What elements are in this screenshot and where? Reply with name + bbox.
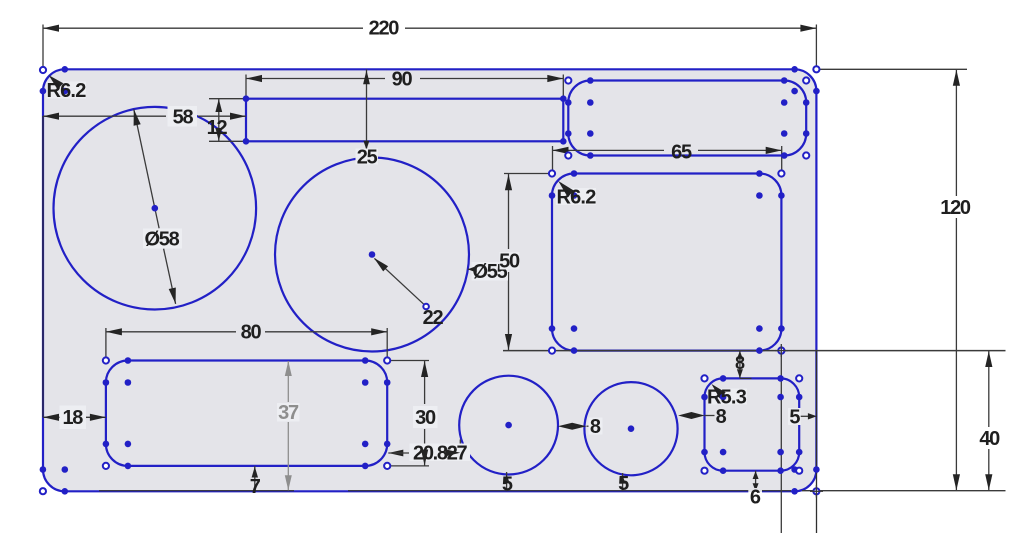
dimension 30 bottom arrow xyxy=(421,450,428,466)
svg-text:8: 8 xyxy=(735,353,745,373)
point for 22 leader xyxy=(423,304,429,310)
label R5.3 leader xyxy=(714,386,723,393)
extension overlay left edge xyxy=(42,116,44,417)
dimension 12 lines xyxy=(218,99,220,142)
dimension 50 text xyxy=(500,252,520,270)
middle cutout corner points xyxy=(571,170,578,177)
bottom-left cutout corner points xyxy=(125,357,132,364)
svg-text:7: 7 xyxy=(250,476,261,498)
panel outline 220x120 R6.2 corners (grey profile fill) xyxy=(43,69,816,491)
label R6.2 middle text xyxy=(556,188,596,205)
dimension 37 driven grey lines xyxy=(287,361,289,402)
label R6.2 panel leader xyxy=(51,77,63,86)
dimension 80 lines xyxy=(106,331,236,333)
svg-text:12: 12 xyxy=(207,117,228,139)
svg-text:58: 58 xyxy=(173,107,194,129)
bottom-left rounded cutout 80x30 xyxy=(106,361,387,466)
circle center points xyxy=(152,205,159,212)
svg-text:6: 6 xyxy=(750,487,761,509)
panel corner open points xyxy=(40,67,46,73)
dimension 25 lines xyxy=(366,69,368,150)
top-right cutout corner points xyxy=(587,77,594,84)
bottom circle A xyxy=(459,376,558,475)
dimension 5 circle A lines xyxy=(506,472,508,491)
svg-text:65: 65 xyxy=(671,142,692,164)
svg-text:R5.3: R5.3 xyxy=(707,386,747,408)
dimension 8 above square text xyxy=(737,369,743,378)
label R5.3 text xyxy=(709,389,748,405)
extension overlay bottom edge a xyxy=(99,490,294,492)
bottom-right rounded square cutout R5.3 xyxy=(705,378,800,470)
svg-text:8: 8 xyxy=(716,406,727,428)
dimension 58 lines xyxy=(43,115,166,117)
dimension 8 between circles lines xyxy=(558,423,587,430)
dimension 6 text xyxy=(748,488,762,491)
svg-text:25: 25 xyxy=(357,147,378,169)
dimension 22 leader lines xyxy=(375,259,427,307)
svg-text:80: 80 xyxy=(241,322,262,344)
svg-text:Ø58: Ø58 xyxy=(145,229,180,251)
dimension 8 between circles text xyxy=(589,418,603,435)
dimension 8 circle B-square lines xyxy=(678,412,705,419)
svg-text:R6.2: R6.2 xyxy=(556,187,596,209)
dimension 18 lines xyxy=(43,416,106,418)
svg-text:50: 50 xyxy=(499,251,520,273)
square cutout corner points xyxy=(720,375,727,382)
extension line right edge down xyxy=(816,351,818,533)
dimension 30 text xyxy=(413,406,438,428)
middle-right rounded cutout 65x50 xyxy=(552,174,781,351)
dimension 6 lines xyxy=(755,471,757,492)
dimension D58 leader lines xyxy=(134,109,159,228)
middle circle cutout D55 xyxy=(275,158,469,352)
svg-text:120: 120 xyxy=(940,197,971,219)
svg-text:5: 5 xyxy=(789,407,800,429)
svg-text:40: 40 xyxy=(979,428,1000,450)
dimension 90 lines xyxy=(246,78,385,80)
label R6.2 middle leader xyxy=(561,183,572,193)
svg-text:5: 5 xyxy=(618,473,629,495)
crossed point middle cutout BR corner xyxy=(778,348,784,354)
dimension 5 square-edge xyxy=(788,408,801,425)
dimension 220 lines xyxy=(43,27,363,29)
dimension 20.827 right extension xyxy=(459,440,461,458)
large circle cutout D58 xyxy=(54,107,257,310)
crossed point panel BR corner xyxy=(813,488,819,494)
extension overlay bottom edge b xyxy=(348,490,791,492)
extension line y=350.6 long xyxy=(503,350,1006,352)
dimension D58 text xyxy=(143,229,182,249)
dimension 8 above square lines xyxy=(739,351,741,379)
svg-text:220: 220 xyxy=(369,18,400,40)
dimension 20.827 leader xyxy=(410,444,471,462)
svg-text:18: 18 xyxy=(62,407,83,429)
svg-text:90: 90 xyxy=(392,68,413,90)
extension line x=781.3 down xyxy=(780,351,782,533)
top-right rounded cutout xyxy=(568,81,806,156)
top slot cutout 90x12 xyxy=(246,99,563,142)
svg-text:R6.2: R6.2 xyxy=(46,80,86,102)
dimension 50 lines xyxy=(508,174,510,249)
label R6.2 panel text xyxy=(47,82,87,99)
dimension 65 lines xyxy=(553,149,665,151)
bottom circle B xyxy=(584,382,677,475)
svg-text:8: 8 xyxy=(590,416,601,438)
dimension D55 leader and text xyxy=(472,262,509,281)
dimension 25 text xyxy=(356,149,379,165)
dimension 18 text xyxy=(60,406,87,430)
panel corner tangent/center points xyxy=(62,66,69,73)
dimension 40 lines xyxy=(988,351,990,427)
dimension 30 lines xyxy=(424,361,426,405)
dimension 37 text xyxy=(277,403,300,422)
svg-text:20.827: 20.827 xyxy=(413,443,468,465)
dimension 7 lines xyxy=(254,466,256,491)
slot corner points xyxy=(243,95,250,102)
svg-text:22: 22 xyxy=(423,307,444,329)
dimension 120 lines xyxy=(955,70,957,196)
extension overlay square top edge xyxy=(740,377,752,379)
dimension 58 text xyxy=(168,106,198,127)
svg-text:37: 37 xyxy=(278,402,299,424)
dimension 5 circle B lines xyxy=(622,473,624,491)
svg-text:30: 30 xyxy=(415,407,436,429)
svg-text:5: 5 xyxy=(502,474,513,496)
